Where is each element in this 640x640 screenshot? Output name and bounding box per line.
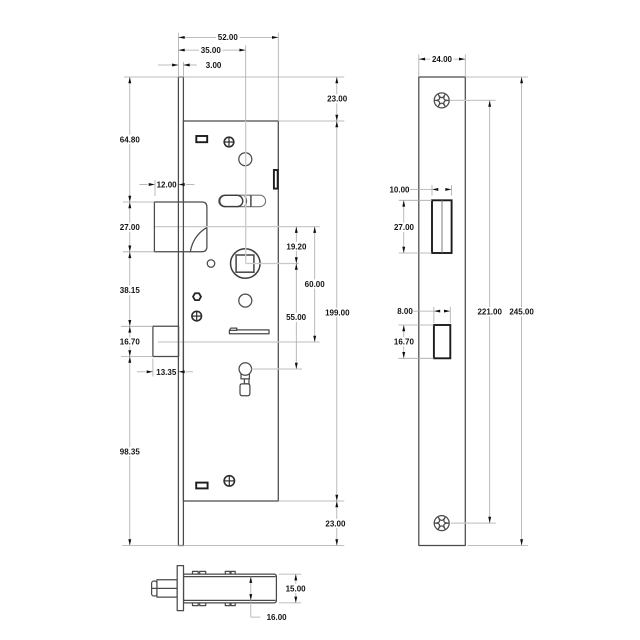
svg-text:60.00: 60.00 <box>305 280 326 289</box>
svg-text:245.00: 245.00 <box>509 308 534 317</box>
svg-text:16.00: 16.00 <box>267 613 288 622</box>
svg-text:221.00: 221.00 <box>477 308 502 317</box>
svg-text:13.35: 13.35 <box>156 368 177 377</box>
svg-text:3.00: 3.00 <box>206 61 222 70</box>
svg-text:23.00: 23.00 <box>327 95 348 104</box>
svg-text:8.00: 8.00 <box>397 307 413 316</box>
svg-text:15.00: 15.00 <box>286 584 307 593</box>
svg-text:27.00: 27.00 <box>120 223 141 232</box>
svg-text:16.70: 16.70 <box>120 338 141 347</box>
svg-text:27.00: 27.00 <box>394 223 415 232</box>
svg-text:19.20: 19.20 <box>286 242 307 251</box>
svg-text:35.00: 35.00 <box>201 46 222 55</box>
svg-text:98.35: 98.35 <box>120 447 141 456</box>
svg-text:199.00: 199.00 <box>325 308 350 317</box>
svg-text:16.70: 16.70 <box>394 338 415 347</box>
svg-text:12.00: 12.00 <box>157 181 178 190</box>
svg-text:10.00: 10.00 <box>389 185 410 194</box>
svg-text:23.00: 23.00 <box>325 519 346 528</box>
svg-text:52.00: 52.00 <box>218 33 239 42</box>
svg-text:55.00: 55.00 <box>286 313 307 322</box>
svg-text:64.80: 64.80 <box>120 135 141 144</box>
svg-text:38.15: 38.15 <box>120 286 141 295</box>
svg-text:24.00: 24.00 <box>432 55 453 64</box>
